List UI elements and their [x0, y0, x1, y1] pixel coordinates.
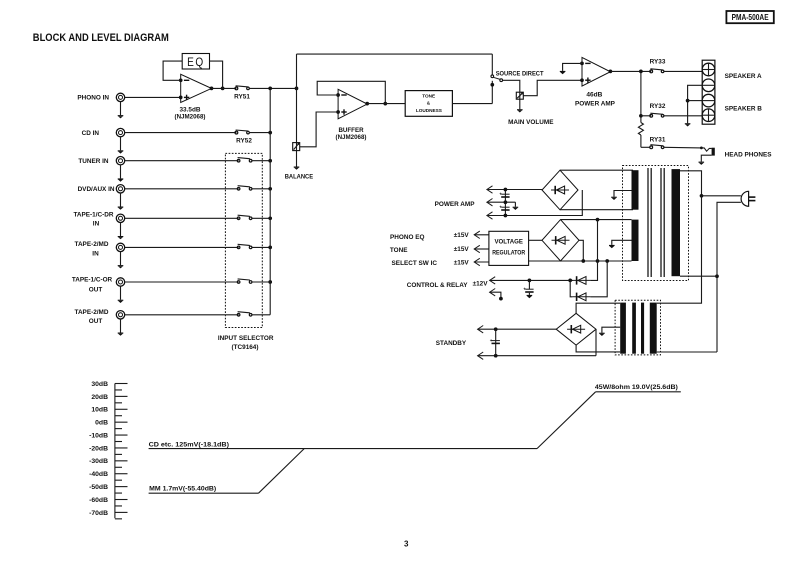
svg-text:SPEAKER A: SPEAKER A: [725, 73, 762, 80]
svg-text:10dB: 10dB: [91, 407, 108, 414]
svg-text:CONTROL & RELAY: CONTROL & RELAY: [407, 282, 468, 289]
svg-text:SELECT SW IC: SELECT SW IC: [392, 260, 438, 267]
svg-text:RY52: RY52: [236, 137, 252, 144]
svg-text:-20dB: -20dB: [89, 445, 108, 452]
svg-text:±15V: ±15V: [454, 259, 470, 266]
svg-text:-30dB: -30dB: [89, 458, 108, 465]
svg-text:TUNER IN: TUNER IN: [78, 158, 109, 165]
svg-text:CD etc. 125mV(-18.1dB): CD etc. 125mV(-18.1dB): [149, 441, 229, 448]
svg-text:INPUT SELECTOR: INPUT SELECTOR: [218, 335, 274, 342]
svg-text:3: 3: [404, 540, 409, 549]
svg-text:IN: IN: [93, 221, 100, 228]
svg-text:DVD/AUX IN: DVD/AUX IN: [78, 186, 115, 193]
svg-text:RY32: RY32: [650, 103, 666, 110]
svg-text:±15V: ±15V: [454, 246, 470, 253]
svg-text:20dB: 20dB: [91, 394, 108, 401]
svg-text:SPEAKER B: SPEAKER B: [725, 105, 763, 112]
svg-text:45W/8ohm 19.0V(25.6dB): 45W/8ohm 19.0V(25.6dB): [595, 384, 678, 391]
svg-text:SOURCE DIRECT: SOURCE DIRECT: [496, 70, 544, 77]
svg-text:-40dB: -40dB: [89, 471, 108, 478]
svg-text:PHONO IN: PHONO IN: [77, 95, 109, 102]
svg-text:RY51: RY51: [234, 93, 250, 100]
svg-text:TONE: TONE: [390, 247, 408, 254]
svg-text:PMA-500AE: PMA-500AE: [732, 12, 769, 22]
svg-text:±15V: ±15V: [454, 232, 470, 239]
svg-text:TAPE-2/MD: TAPE-2/MD: [75, 309, 109, 316]
svg-text:-50dB: -50dB: [89, 484, 108, 491]
svg-text:-70dB: -70dB: [89, 510, 108, 517]
svg-text:POWER AMP: POWER AMP: [575, 101, 616, 108]
svg-text:TAPE-2/MD: TAPE-2/MD: [75, 241, 109, 248]
svg-text:OUT: OUT: [89, 286, 103, 293]
svg-text:STANDBY: STANDBY: [436, 340, 467, 347]
svg-text:TAPE-1/C-OR: TAPE-1/C-OR: [72, 276, 113, 283]
svg-text:(NJM2068): (NJM2068): [175, 114, 206, 121]
svg-text:PHONO EQ: PHONO EQ: [390, 234, 424, 241]
svg-text:(NJM2068): (NJM2068): [336, 134, 367, 141]
svg-text:+: +: [499, 204, 502, 209]
svg-text:RY31: RY31: [650, 136, 666, 143]
svg-text:RY33: RY33: [650, 58, 666, 65]
svg-text:IN: IN: [92, 251, 99, 258]
svg-text:BALANCE: BALANCE: [285, 173, 314, 180]
svg-text:BUFFER: BUFFER: [338, 127, 364, 134]
svg-text:-10dB: -10dB: [89, 432, 108, 439]
svg-text:±12V: ±12V: [473, 280, 489, 287]
svg-text:CD IN: CD IN: [82, 130, 100, 137]
svg-text:-60dB: -60dB: [89, 497, 108, 504]
svg-text:POWER AMP: POWER AMP: [435, 201, 476, 208]
svg-text:BLOCK AND LEVEL DIAGRAM: BLOCK AND LEVEL DIAGRAM: [33, 32, 169, 44]
svg-text:+: +: [499, 191, 502, 196]
svg-text:+: +: [490, 338, 493, 343]
svg-text:VOLTAGE: VOLTAGE: [494, 239, 523, 246]
svg-text:+: +: [523, 286, 526, 291]
svg-text:EQ: EQ: [187, 55, 205, 69]
svg-text:TAPE-1/C-DR: TAPE-1/C-DR: [73, 212, 113, 219]
svg-text:MM 1.7mV(-55.40dB): MM 1.7mV(-55.40dB): [149, 485, 216, 492]
svg-text:TONE: TONE: [422, 94, 435, 99]
svg-text:REGULATOR: REGULATOR: [492, 250, 525, 257]
svg-text:&: &: [427, 100, 431, 105]
svg-text:33.5dB: 33.5dB: [180, 107, 202, 114]
svg-text:0dB: 0dB: [95, 420, 108, 427]
svg-text:30dB: 30dB: [91, 381, 108, 388]
svg-text:(TC9164): (TC9164): [232, 344, 259, 351]
svg-text:46dB: 46dB: [586, 91, 603, 98]
svg-text:MAIN VOLUME: MAIN VOLUME: [508, 119, 554, 126]
svg-text:LOUDNESS: LOUDNESS: [416, 108, 442, 113]
svg-text:OUT: OUT: [89, 318, 103, 325]
svg-text:HEAD PHONES: HEAD PHONES: [725, 152, 773, 159]
